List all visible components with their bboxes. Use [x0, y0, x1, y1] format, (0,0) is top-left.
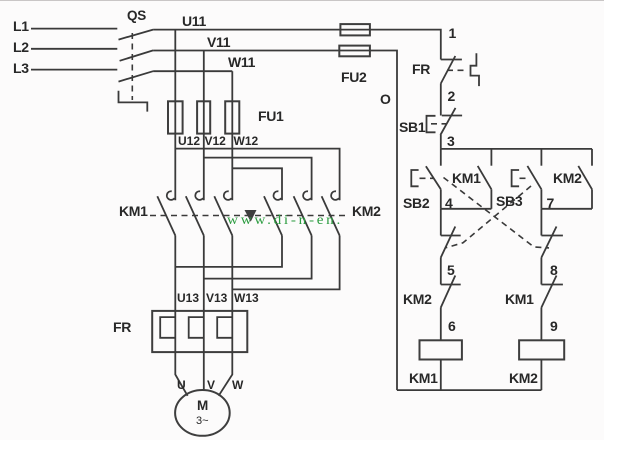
svg-text:KM2: KM2: [553, 170, 582, 186]
wire U12 crossover to KM2 pole 3: [175, 149, 339, 201]
button SB1 cap: [427, 116, 436, 133]
fuse FU2 element 1 wire: [340, 29, 370, 31]
fuse FU2 element 2 wire: [339, 50, 370, 52]
svg-text:KM2: KM2: [509, 370, 538, 386]
contact KM2 interlock NC tick: [441, 284, 461, 286]
wire U11: [153, 29, 340, 31]
wire node 9 segment: [540, 308, 542, 341]
wire U12 column down to KM1 pole 1: [174, 134, 176, 201]
wire node 6 segment: [440, 308, 442, 341]
wire L1: [31, 28, 117, 30]
svg-text:L3: L3: [13, 60, 29, 76]
contactor KM1 main pole 2 blade: [186, 196, 204, 235]
contactor KM2 main pole 3 terminal arc: [331, 191, 339, 200]
wire node 3 bus: [441, 148, 592, 150]
wire W11 drop to fuse: [231, 71, 233, 101]
wire bottom bus: [397, 389, 541, 391]
svg-text:FR: FR: [113, 319, 131, 335]
thermal relay FR heater V phase: [189, 317, 204, 338]
fuse FU1 element U12 body: [168, 101, 183, 133]
coil KM2 body: [519, 340, 564, 359]
wire coil KM2 to bottom bus: [540, 360, 542, 391]
svg-text:L1: L1: [13, 18, 29, 34]
contactor KM1 main pole 3 terminal arc: [224, 191, 232, 200]
fuse FU2 element 1 body: [340, 24, 370, 35]
wire KM1 aux branch drop: [490, 149, 492, 166]
wire KM1 pole 1 output: [174, 236, 176, 311]
wire U11 drop to fuse: [174, 30, 176, 102]
button SB1 NC tick: [442, 115, 462, 117]
contact KM1 interlock NC tick: [541, 284, 563, 286]
svg-text:W: W: [232, 378, 244, 392]
wire motor W lead: [219, 352, 233, 396]
wire V11: [153, 50, 339, 52]
wire SB2 to node 4: [440, 189, 442, 209]
svg-text:V11: V11: [207, 34, 231, 50]
switch QS pole 3 blade: [119, 71, 154, 81]
interlock dashed SB3 to SB3-NC: [446, 186, 531, 248]
fuse FU1 element V12 body: [197, 101, 210, 133]
contactor KM2 main pole 2 terminal arc: [303, 191, 311, 200]
svg-text:KM1: KM1: [119, 203, 148, 219]
wire W12 column down to KM1 pole 3: [231, 134, 233, 201]
wire L2: [31, 48, 117, 50]
wire node 7 down: [540, 209, 542, 236]
wire motor V lead: [203, 352, 205, 390]
svg-text:FU2: FU2: [341, 69, 367, 85]
contact KM1 aux NO blade: [478, 166, 492, 189]
wire L3: [31, 69, 117, 71]
wire node 1 to 2: [440, 84, 442, 116]
button SB3 cap: [512, 170, 519, 186]
button SB3 NO blade: [527, 166, 541, 189]
wire KM2 pole 1 output to U13: [175, 236, 282, 267]
svg-text:2: 2: [448, 88, 456, 104]
wire W11: [153, 70, 232, 72]
wire KM1 aux to node 4: [490, 189, 492, 209]
contactor KM1 main pole 1 blade: [157, 196, 175, 235]
svg-text:1: 1: [449, 25, 457, 41]
top faint border: [0, 0, 604, 2]
button SB2 cap link dashed: [420, 177, 435, 179]
wire KM2 aux branch drop: [591, 149, 593, 166]
svg-text:5: 5: [447, 262, 455, 278]
svg-text:SB2: SB2: [403, 195, 430, 211]
contactor KM2 main pole 2 blade: [294, 196, 312, 235]
contact KM2 aux NO blade: [578, 166, 592, 189]
svg-text:W13: W13: [234, 291, 259, 305]
fuse FU1 element U12 wire through: [174, 101, 176, 133]
thermal relay FR box: [152, 311, 247, 352]
coil KM1 body: [420, 340, 462, 359]
wire V12 crossover to KM2 pole 2: [204, 158, 312, 201]
svg-text:W12: W12: [234, 134, 259, 148]
fuse FU1 element W12 wire through: [231, 101, 233, 133]
svg-text:3~: 3~: [196, 415, 209, 427]
relay FR thermal actuator: [471, 53, 480, 86]
svg-text:8: 8: [550, 262, 558, 278]
svg-text:V12: V12: [205, 134, 227, 148]
svg-text:W11: W11: [228, 54, 256, 70]
svg-text:FU1: FU1: [258, 108, 284, 124]
contact KM1 interlock NC blade: [541, 276, 556, 308]
wire node 8 segment: [540, 258, 542, 285]
wire V12 column down to KM1 pole 2: [203, 134, 205, 201]
relay FR NC actuator link dashed: [447, 69, 467, 71]
switch QS pole 1 blade: [119, 30, 154, 40]
wire KM2 pole 3 output to W13: [232, 236, 339, 290]
thermal relay FR heater V wire: [203, 311, 205, 352]
button SB3 cap link dashed: [520, 177, 528, 179]
svg-text:3: 3: [447, 133, 455, 149]
wire W12 crossover to KM2 pole 1: [232, 168, 282, 200]
svg-text:KM1: KM1: [452, 170, 481, 186]
wire SB3 to node 7: [540, 189, 542, 209]
svg-text:U12: U12: [178, 134, 200, 148]
svg-text:V13: V13: [206, 291, 228, 305]
svg-text:M: M: [197, 398, 208, 413]
switch QS linkage dashed: [131, 33, 133, 100]
button SB2 NO blade: [426, 166, 441, 189]
fuse FU2 element 2 body: [339, 46, 370, 57]
svg-text:KM1: KM1: [505, 291, 534, 307]
wire node 4 down: [440, 209, 442, 236]
wire control neutral from FU2: [370, 51, 397, 391]
svg-text:9: 9: [550, 318, 558, 334]
wire node 4 bus: [441, 208, 492, 210]
relay FR NC contact blade: [441, 56, 456, 84]
svg-text:KM1: KM1: [409, 370, 438, 386]
wire SB3 branch drop: [540, 149, 542, 166]
button SB2 NC blade: [541, 227, 556, 258]
contactor KM2 main pole 1 blade: [264, 196, 282, 235]
svg-text:O: O: [380, 91, 391, 107]
KM1-KM2 main linkage dashed: [150, 215, 346, 217]
contactor KM1 main pole 2 terminal arc: [195, 191, 203, 200]
wire node 2 to 3: [440, 135, 442, 149]
thermal relay FR heater W wire: [231, 311, 233, 352]
contact KM2 interlock NC blade: [441, 276, 456, 308]
svg-text:SB1: SB1: [399, 119, 426, 135]
svg-text:www.di-n-en.: www.di-n-en.: [227, 212, 343, 227]
wire KM1 pole 2 output: [203, 236, 205, 311]
wire motor U lead: [175, 352, 187, 396]
wire node 5 segment: [440, 258, 442, 285]
relay FR NC contact tick: [441, 59, 462, 61]
button SB3 NC tick: [441, 235, 461, 237]
svg-text:QS: QS: [127, 8, 146, 23]
thermal relay FR heater U phase: [160, 317, 175, 338]
svg-text:U: U: [177, 378, 186, 392]
fuse FU1 element W12 body: [225, 101, 239, 133]
interlock dashed SB2 to SB2-NC: [444, 178, 550, 248]
button SB2 cap: [411, 170, 418, 186]
contactor KM1 main pole 3 blade: [214, 196, 232, 235]
button SB3 NC blade: [441, 227, 456, 258]
wire control phase rail top: [370, 30, 441, 60]
wire coil KM1 to bottom bus: [440, 360, 442, 391]
button SB1 NC blade: [440, 108, 455, 135]
svg-text:U11: U11: [182, 13, 207, 29]
switch QS pole 2 blade: [120, 50, 154, 60]
switch QS handle: [119, 91, 148, 112]
svg-text:L2: L2: [13, 39, 29, 55]
wire V11 drop to fuse: [203, 51, 205, 102]
svg-text:KM2: KM2: [352, 203, 381, 219]
fuse FU1 element V12 wire through: [203, 101, 205, 133]
motor M1 body: [175, 390, 230, 436]
svg-text:6: 6: [448, 318, 456, 334]
button SB2 NC tick: [541, 235, 563, 237]
wire KM2 pole 2 output to V13: [204, 236, 312, 279]
svg-text:FR: FR: [412, 61, 430, 77]
wire KM2 aux to node 7: [591, 189, 593, 209]
wire KM1 pole 3 output: [231, 236, 233, 311]
thermal relay FR heater W phase: [217, 317, 232, 338]
contactor KM1 main pole 1 terminal arc: [167, 191, 175, 200]
contactor KM2 main pole 1 terminal arc: [274, 191, 282, 200]
button SB1 cap link dashed: [431, 123, 446, 125]
wire SB2 branch drop: [440, 149, 442, 166]
svg-text:U13: U13: [177, 291, 199, 305]
wire node 7 bus: [541, 208, 592, 210]
watermark triangle: [245, 210, 257, 222]
contactor KM2 main pole 3 blade: [322, 196, 340, 235]
thermal relay FR heater U wire: [174, 311, 176, 352]
svg-text:KM2: KM2: [403, 291, 432, 307]
